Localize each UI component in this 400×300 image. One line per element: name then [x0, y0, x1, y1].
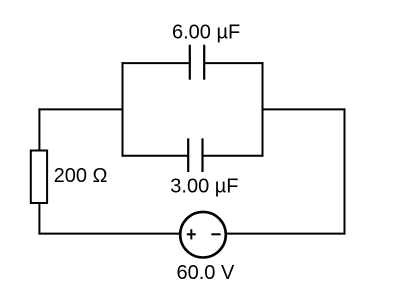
wire bottom rail left segment: [38, 233, 179, 235]
wire left branch horizontal (node A to parallel block): [38, 108, 123, 110]
minus terminal mark: [211, 233, 220, 235]
wire right branch horizontal (parallel block to node B): [262, 108, 346, 110]
voltage source V (circle): [180, 212, 226, 258]
plus terminal mark: [187, 229, 196, 239]
svg-text:3.00 µF: 3.00 µF: [170, 176, 238, 198]
svg-text:6.00 µF: 6.00 µF: [172, 21, 240, 43]
wire bottom rail right segment: [227, 233, 346, 235]
wire parallel block right vertical: [262, 62, 264, 157]
svg-text:60.0 V: 60.0 V: [177, 262, 235, 284]
wire top branch left segment: [122, 62, 190, 64]
svg-text:200 Ω: 200 Ω: [54, 165, 108, 187]
wire bottom branch right segment: [203, 155, 264, 157]
wire top branch right segment: [204, 62, 263, 64]
capacitor C2 plates (3.00 uF): [188, 138, 202, 172]
wire bottom branch left segment: [122, 155, 189, 157]
wire left vertical upper (to resistor top): [38, 108, 40, 151]
capacitor C1 plates (6.00 uF): [190, 45, 204, 80]
wire right vertical: [344, 108, 346, 234]
resistor R (200 ohm box): [31, 151, 47, 204]
wire parallel block left vertical: [122, 62, 124, 157]
wire left vertical lower (resistor bottom to bottom rail): [38, 203, 40, 235]
